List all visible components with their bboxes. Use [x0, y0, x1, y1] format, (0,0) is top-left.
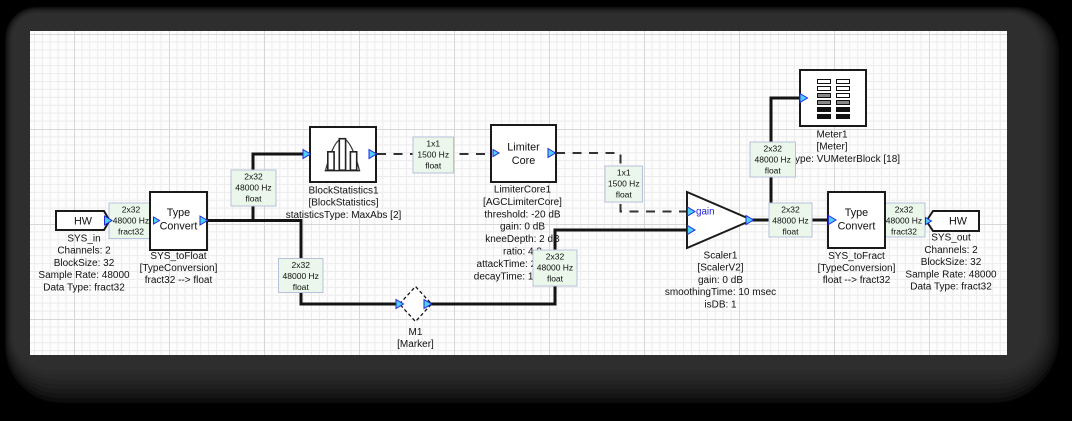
- svg-text:gain: gain: [696, 207, 715, 218]
- svg-text:2x32: 2x32: [764, 143, 783, 153]
- svg-text:kneeDepth: 2 dB: kneeDepth: 2 dB: [485, 234, 560, 245]
- svg-text:float: float: [293, 282, 310, 292]
- svg-text:M1: M1: [409, 327, 423, 338]
- svg-text:2x32: 2x32: [781, 204, 800, 214]
- svg-text:48000 Hz: 48000 Hz: [235, 182, 271, 192]
- svg-text:gain: 0 dB: gain: 0 dB: [698, 275, 743, 286]
- svg-text:48000 Hz: 48000 Hz: [537, 262, 573, 272]
- svg-text:Data Type: fract32: Data Type: fract32: [910, 282, 992, 293]
- svg-text:1x1: 1x1: [426, 138, 440, 148]
- svg-text:[Marker]: [Marker]: [397, 339, 434, 350]
- svg-text:isDB: 1: isDB: 1: [704, 300, 737, 311]
- svg-text:2x32: 2x32: [895, 204, 914, 214]
- svg-text:float: float: [547, 273, 564, 283]
- svg-text:Meter1: Meter1: [816, 129, 848, 140]
- svg-text:[TypeConversion]: [TypeConversion]: [140, 263, 218, 274]
- svg-text:float: float: [782, 226, 799, 236]
- svg-text:48000 Hz: 48000 Hz: [113, 215, 149, 225]
- svg-text:2x32: 2x32: [244, 171, 263, 181]
- svg-text:float: float: [425, 160, 442, 170]
- svg-text:HW: HW: [949, 216, 968, 228]
- svg-text:Sample Rate: 48000: Sample Rate: 48000: [38, 270, 130, 281]
- svg-text:Scaler1: Scaler1: [704, 250, 738, 261]
- svg-text:Sample Rate: 48000: Sample Rate: 48000: [905, 269, 997, 280]
- svg-text:48000 Hz: 48000 Hz: [886, 215, 922, 225]
- svg-text:SYS_out: SYS_out: [931, 233, 971, 244]
- svg-text:BlockSize: 32: BlockSize: 32: [54, 258, 115, 269]
- svg-text:[TypeConversion]: [TypeConversion]: [818, 263, 896, 274]
- svg-text:Core: Core: [512, 155, 535, 167]
- svg-text:float: float: [245, 193, 262, 203]
- svg-text:Type: Type: [845, 207, 868, 219]
- svg-text:1x1: 1x1: [617, 167, 631, 177]
- svg-text:Channels: 2: Channels: 2: [924, 245, 978, 256]
- svg-text:threshold: -20 dB: threshold: -20 dB: [484, 209, 560, 220]
- svg-text:BlockStatistics1: BlockStatistics1: [308, 186, 378, 197]
- svg-text:smoothingTime: 10 msec: smoothingTime: 10 msec: [665, 287, 776, 298]
- svg-text:48000 Hz: 48000 Hz: [755, 154, 791, 164]
- svg-text:SYS_in: SYS_in: [67, 234, 100, 245]
- svg-text:gain: 0 dB: gain: 0 dB: [500, 222, 545, 233]
- svg-text:LimiterCore1: LimiterCore1: [494, 185, 552, 196]
- svg-text:float: float: [765, 165, 782, 175]
- svg-text:SYS_toFract: SYS_toFract: [828, 251, 885, 262]
- svg-text:[AGCLimiterCore]: [AGCLimiterCore]: [483, 197, 562, 208]
- svg-text:float --> fract32: float --> fract32: [823, 275, 891, 286]
- svg-text:statisticsType: MaxAbs [2]: statisticsType: MaxAbs [2]: [286, 210, 402, 221]
- svg-text:Data Type: fract32: Data Type: fract32: [43, 282, 125, 293]
- svg-text:fract32 --> float: fract32 --> float: [145, 275, 213, 286]
- svg-text:Limiter: Limiter: [507, 142, 540, 154]
- svg-text:[BlockStatistics]: [BlockStatistics]: [308, 198, 378, 209]
- svg-text:2x32: 2x32: [122, 204, 141, 214]
- svg-text:2x32: 2x32: [292, 260, 311, 270]
- svg-text:Convert: Convert: [838, 221, 876, 233]
- svg-text:Convert: Convert: [160, 221, 198, 233]
- svg-text:[ScalerV2]: [ScalerV2]: [697, 263, 743, 274]
- svg-text:BlockSize: 32: BlockSize: 32: [921, 257, 982, 268]
- svg-text:1500 Hz: 1500 Hz: [608, 178, 640, 188]
- svg-text:SYS_toFloat: SYS_toFloat: [150, 251, 206, 262]
- svg-text:fract32: fract32: [891, 226, 917, 236]
- svg-text:48000 Hz: 48000 Hz: [283, 271, 319, 281]
- svg-text:Channels: 2: Channels: 2: [57, 246, 111, 257]
- svg-text:48000 Hz: 48000 Hz: [772, 215, 808, 225]
- svg-text:1500 Hz: 1500 Hz: [417, 149, 449, 159]
- svg-text:[Meter]: [Meter]: [816, 142, 847, 153]
- svg-text:HW: HW: [74, 216, 93, 228]
- svg-text:Type: Type: [167, 207, 190, 219]
- svg-text:fract32: fract32: [118, 226, 144, 236]
- svg-text:float: float: [616, 189, 633, 199]
- svg-text:2x32: 2x32: [546, 251, 565, 261]
